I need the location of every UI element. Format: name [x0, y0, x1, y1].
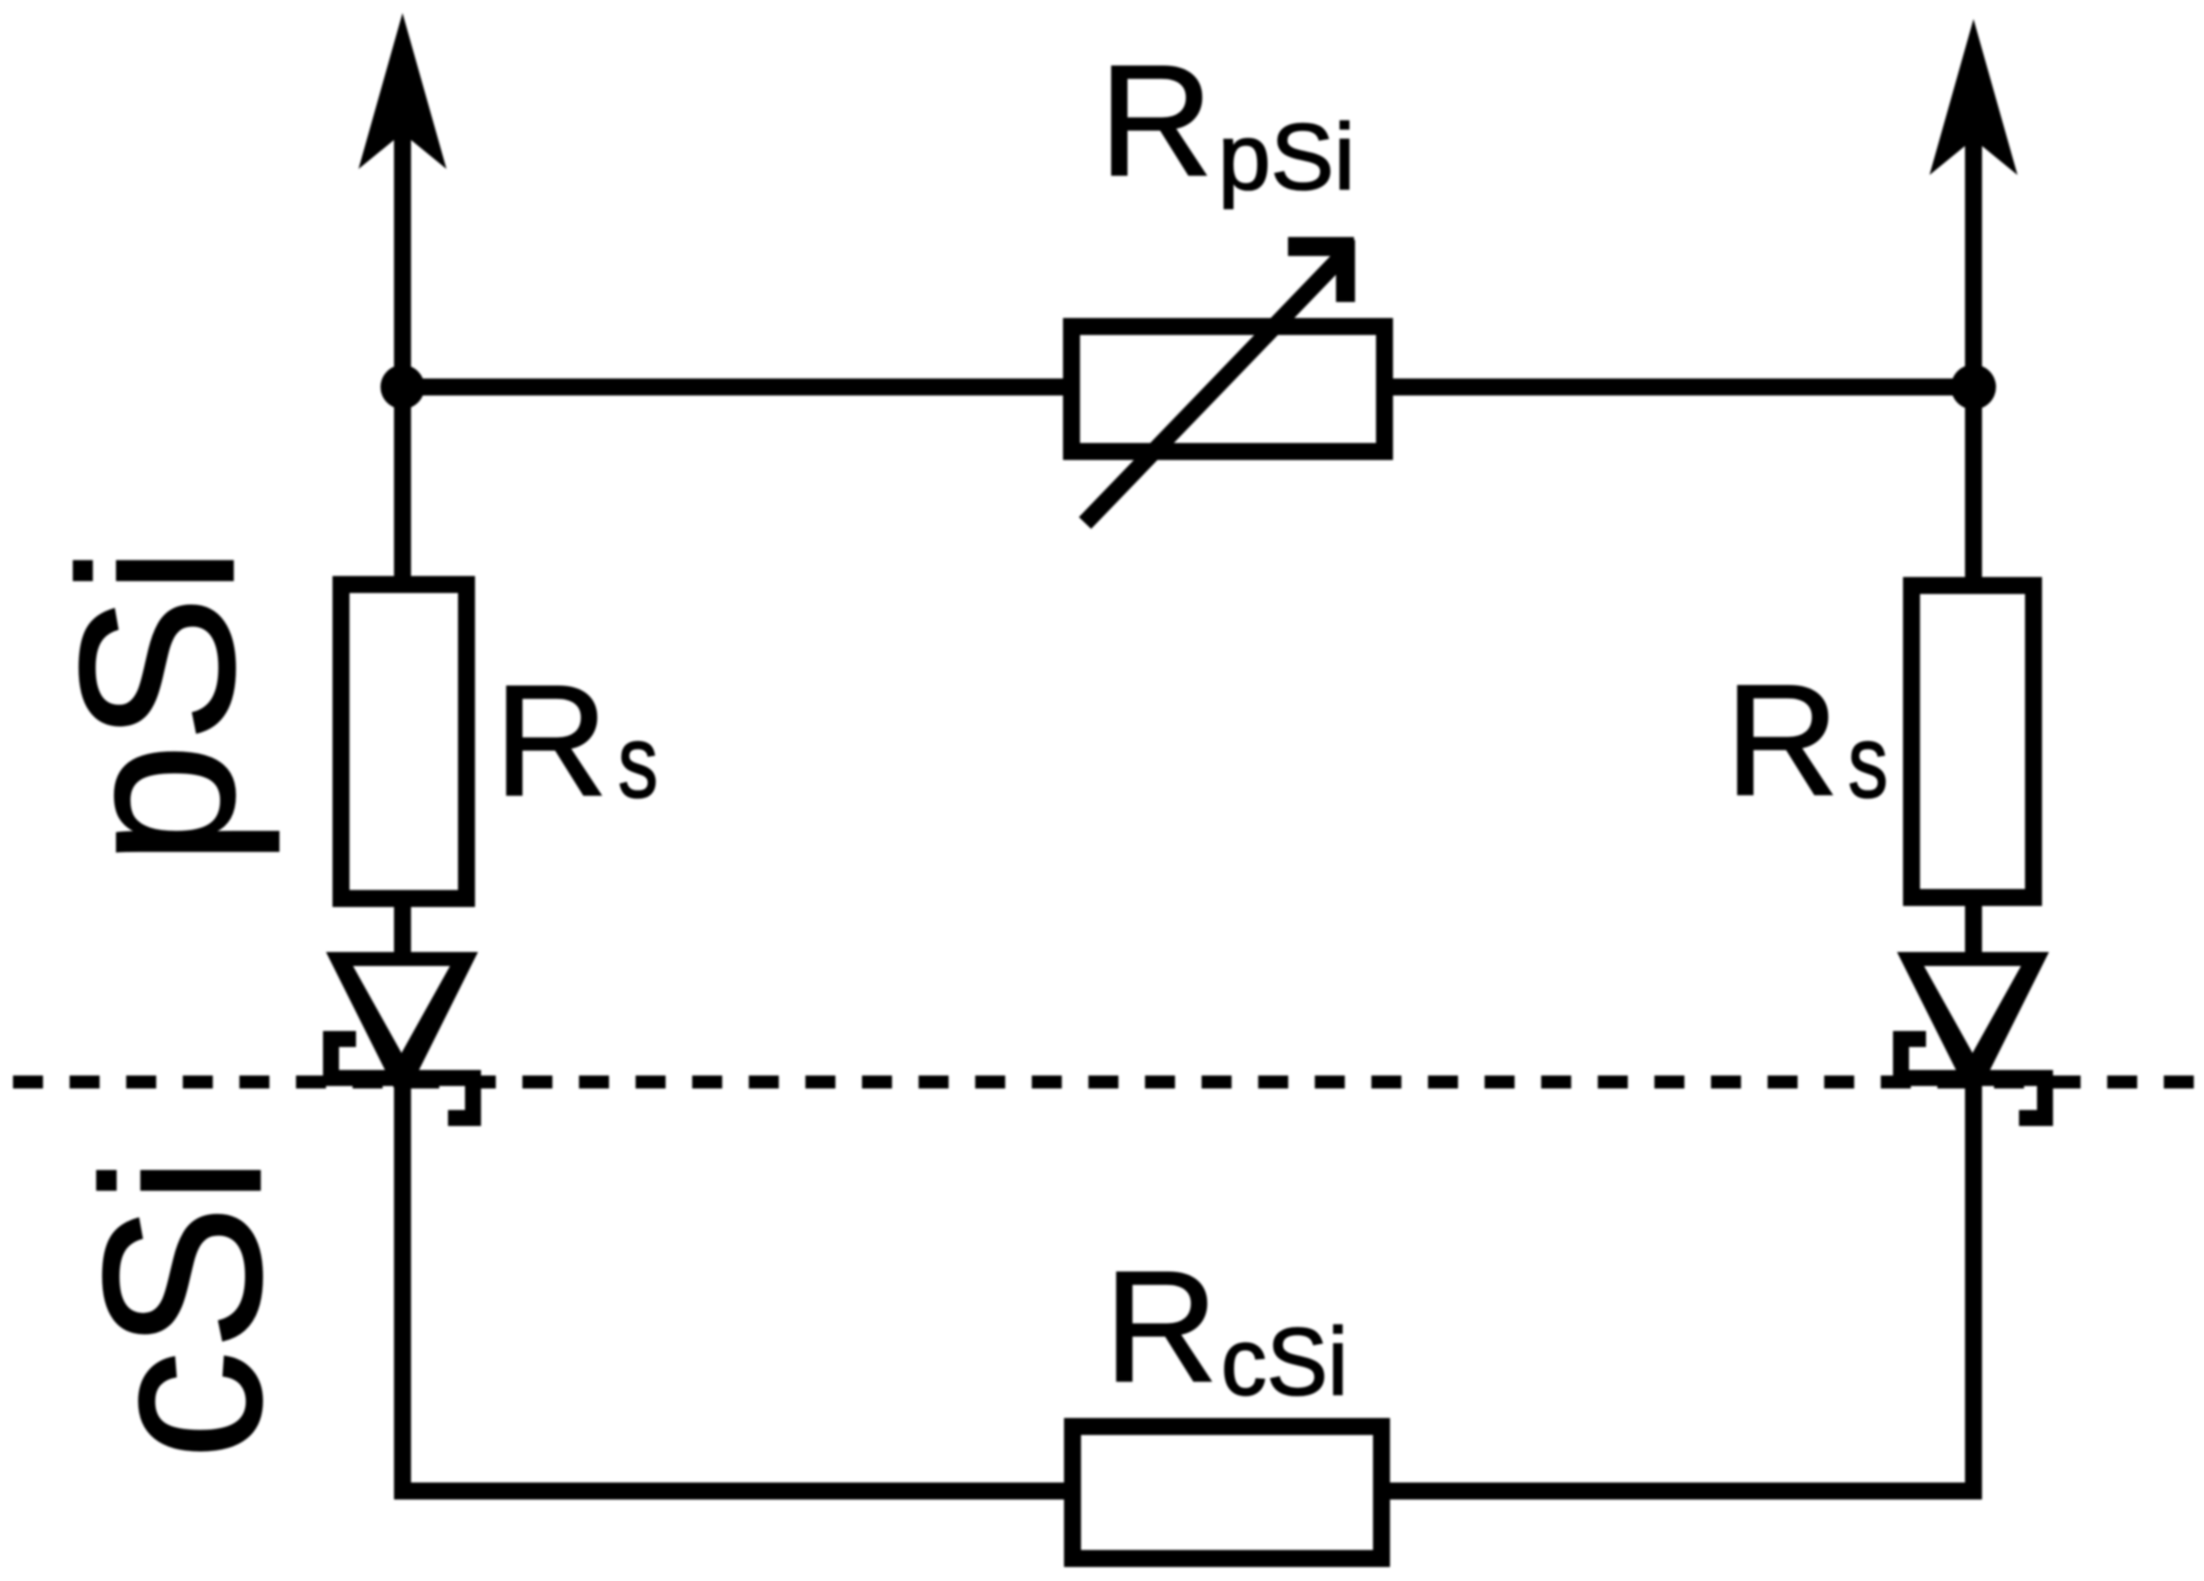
svg-text:s: s	[1848, 704, 1888, 819]
wire: right resistor to diode	[1965, 899, 1982, 962]
wire: right below-bar lead	[1965, 1078, 1982, 1491]
svg-text:cSi: cSi	[1221, 1309, 1348, 1416]
svg-text:pSi: pSi	[1218, 104, 1355, 209]
wire: left terminal shaft	[394, 90, 411, 580]
variable resistor R_pSi body	[1072, 327, 1385, 452]
variable resistor R_pSi arrow shaft	[1085, 251, 1347, 523]
resistor R_s right body	[1912, 586, 2034, 898]
svg-text:R: R	[1099, 33, 1213, 209]
left terminal arrow head	[359, 13, 447, 169]
wire: top horizontal node wire	[403, 379, 1974, 396]
wire: right terminal shaft	[1965, 90, 1982, 580]
dashed boundary line between pSi and cSi	[13, 1076, 2204, 1089]
variable resistor R_pSi arrow barb vertical	[1336, 240, 1355, 302]
resistor R_s left body	[341, 585, 467, 899]
node B: right junction dot	[1951, 365, 1996, 410]
svg-text:R: R	[494, 653, 608, 829]
diode D1 (left Schottky) triangle	[326, 952, 478, 1104]
diode D1 Schottky cathode bar	[331, 1039, 473, 1118]
wire: bottom horizontal wire	[394, 1483, 1982, 1500]
diode D2 (right Schottky) triangle	[1897, 952, 2049, 1104]
resistor R_cSi body	[1073, 1427, 1382, 1559]
node A: left junction dot	[381, 365, 425, 409]
svg-text:R: R	[1725, 653, 1839, 829]
svg-text:cSi: cSi	[56, 1156, 308, 1460]
svg-text:pSi: pSi	[34, 546, 280, 866]
diode D2 Schottky cathode bar	[1901, 1039, 2045, 1118]
svg-text:R: R	[1104, 1239, 1218, 1415]
variable resistor R_pSi arrow barb horizontal	[1288, 237, 1354, 256]
svg-text:s: s	[618, 704, 658, 819]
wire: left resistor to diode	[394, 900, 411, 962]
wire: left below-bar lead	[394, 1078, 411, 1491]
right terminal arrow head	[1930, 19, 2018, 175]
